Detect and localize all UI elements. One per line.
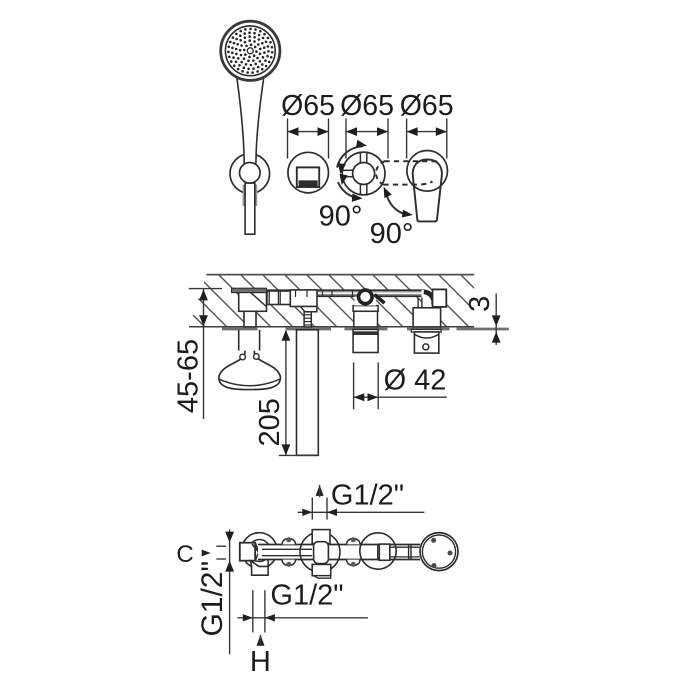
svg-text:3: 3: [464, 296, 496, 312]
left elbow body: [232, 288, 267, 311]
overhead shower bell: [219, 351, 281, 390]
center valve bottom block: [312, 564, 331, 578]
left elbow nut (top view): [240, 543, 259, 561]
mixer valve body (section): [413, 308, 441, 327]
mixer escutcheon circle (front view): [407, 151, 448, 192]
dimension 3: [464, 294, 501, 346]
svg-text:205: 205: [254, 398, 286, 446]
dimension 45-65: [173, 289, 208, 419]
svg-text:90°: 90°: [370, 218, 414, 250]
wall top line: [206, 274, 474, 276]
svg-text:Ø65: Ø65: [281, 90, 335, 122]
shower arm tube: [239, 330, 260, 351]
rotation arc lower: [338, 174, 363, 202]
spout drop pipe: [297, 330, 319, 456]
svg-text:45-65: 45-65: [173, 339, 205, 413]
right valve circle (top view): [360, 533, 396, 569]
shower holder ring: [230, 154, 270, 194]
svg-text:G1/2": G1/2": [270, 580, 343, 612]
stem divisions: [409, 545, 411, 560]
hand shower head: [221, 21, 280, 80]
mixer pipe body (top view): [258, 545, 420, 560]
diverter knob (front view): [342, 152, 385, 195]
dimension 205: [254, 330, 290, 456]
wall bottom line: [189, 326, 474, 328]
spout valve body: [290, 290, 317, 312]
dimension label Ø65 #3: [400, 90, 454, 159]
shower holder clamp: [240, 163, 261, 184]
left vertical dimension line: [225, 530, 234, 655]
mixer elbow (section): [418, 289, 446, 308]
mounting rail pipe: [267, 290, 424, 296]
spout valve stem: [304, 312, 311, 327]
svg-text:G1/2": G1/2": [196, 561, 229, 637]
label 90 deg left: [319, 200, 363, 232]
hand shower handle: [237, 78, 264, 164]
mixer lever handle: [413, 160, 442, 222]
svg-text:Ø65: Ø65: [400, 90, 454, 122]
svg-text:90°: 90°: [319, 200, 363, 232]
rotation arc upper: [337, 140, 367, 174]
label G1/2 left: [196, 561, 229, 637]
center valve top block: [312, 530, 330, 544]
svg-text:Ø65: Ø65: [340, 90, 394, 122]
rotation arc right: [384, 187, 413, 218]
dimension H: [250, 635, 271, 678]
svg-text:H: H: [250, 646, 271, 678]
dimension C: [176, 541, 226, 568]
dimension Ø42: [354, 362, 447, 409]
center valve barrel: [314, 542, 329, 564]
left boss circle (top view): [242, 533, 278, 569]
label 90 deg right: [370, 218, 414, 250]
rotated lever (dashed): [376, 161, 440, 184]
spout trim (front view): [288, 152, 329, 193]
dimension G1/2 bottom: [237, 580, 368, 633]
diverter trim (section): [353, 329, 378, 352]
diverter body (section): [353, 290, 384, 327]
cartridge box (top view): [378, 544, 390, 560]
handle lower end: [243, 183, 258, 234]
mounting lugs with screws: [282, 537, 360, 567]
svg-text:Ø 42: Ø 42: [384, 365, 447, 397]
left outlet pad (top view): [251, 559, 269, 575]
wall section hatching: [189, 275, 474, 327]
left elbow drop pipe: [244, 311, 256, 327]
flange level extension line: [189, 288, 222, 290]
handle flange circle (top view): [420, 533, 458, 571]
dimension label Ø65 #2: [340, 90, 394, 159]
svg-text:C: C: [176, 541, 193, 568]
pipe bottom extension line: [279, 454, 319, 456]
mixer trim (section): [411, 329, 441, 353]
union nut: [267, 291, 290, 305]
center valve circle (top view): [300, 532, 340, 572]
tile surface line: [222, 328, 509, 331]
dimension label Ø65 #1: [281, 90, 335, 159]
dimension G1/2 top: [298, 480, 425, 520]
svg-text:G1/2": G1/2": [331, 480, 404, 512]
